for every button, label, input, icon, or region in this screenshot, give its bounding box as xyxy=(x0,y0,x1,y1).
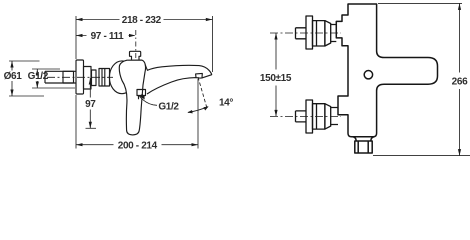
svg-text:14°: 14° xyxy=(219,97,233,108)
svg-text:200 - 214: 200 - 214 xyxy=(118,140,158,151)
svg-text:150±15: 150±15 xyxy=(260,73,292,84)
svg-text:218 - 232: 218 - 232 xyxy=(122,15,162,26)
svg-text:Ø61: Ø61 xyxy=(4,71,23,82)
svg-text:G1/2: G1/2 xyxy=(158,101,179,112)
svg-text:G1/2: G1/2 xyxy=(28,71,49,82)
svg-text:266: 266 xyxy=(452,76,468,87)
svg-text:97 - 111: 97 - 111 xyxy=(91,31,125,42)
svg-text:97: 97 xyxy=(85,99,96,110)
